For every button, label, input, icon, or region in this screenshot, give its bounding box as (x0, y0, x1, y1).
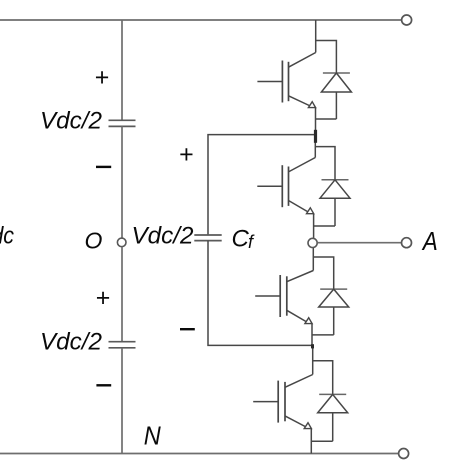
svg-text:+: + (95, 284, 110, 312)
wire emitter of S1 (315, 108, 317, 136)
svg-text:f: f (248, 232, 255, 252)
wire collector-diode top bracket S4/D4 (313, 361, 333, 395)
node J2 (cell3/cell4 junction, flying cap -) (311, 344, 314, 348)
transistor S3 (IGBT) (255, 271, 313, 324)
wire collector of S4 (312, 345, 314, 374)
svg-text:A: A (421, 226, 438, 256)
svg-text:N: N (144, 421, 161, 451)
wire emitter-diode bottom bracket S3/D3 (312, 334, 334, 336)
wire bottom DC rail N (0, 453, 398, 455)
label - (upper bus capacitor polarity) (96, 166, 111, 168)
wire emitter-diode bottom bracket S4/D4 (311, 440, 332, 442)
wire collector of S2 (314, 135, 316, 158)
svg-text:C: C (232, 225, 250, 252)
wire left DC bus (top segment) (121, 20, 123, 120)
wire phase output to terminal A (317, 242, 401, 244)
capacitor C2 Vdc/2 (lower bus capacitor) (109, 342, 136, 348)
diode D2 (antiparallel) (320, 180, 350, 226)
wire collector-diode top bracket S1/D1 (316, 41, 337, 74)
svg-text:Vdc/2: Vdc/2 (40, 329, 102, 356)
terminal A (middle right) (402, 238, 412, 248)
capacitor Cf (flying capacitor) (194, 235, 221, 241)
svg-text:+: + (179, 140, 194, 168)
node J1 (cell1/cell2 junction, flying cap +) (314, 130, 317, 143)
svg-text:Vdc: Vdc (0, 223, 14, 250)
diode D3 (antiparallel) (319, 289, 349, 335)
wire collector-diode top bracket S2/D2 (315, 147, 335, 180)
svg-text:Vdc/2: Vdc/2 (132, 223, 194, 250)
wire top DC rail P (0, 19, 402, 21)
svg-text:O: O (85, 227, 103, 253)
wire emitter of S4 (310, 429, 312, 454)
node phase output circle (308, 238, 317, 247)
node O (midpoint circle) (117, 238, 126, 247)
wire collector of S1 (315, 20, 317, 53)
svg-text:+: + (94, 64, 109, 92)
label - (lower bus capacitor polarity) (96, 384, 111, 386)
wire collector-diode top bracket S3/D3 (313, 257, 333, 289)
wire emitter-diode bottom bracket S2/D2 (314, 225, 335, 227)
transistor S2 (IGBT) (257, 158, 315, 214)
wire emitter-diode bottom bracket S1/D1 (316, 118, 337, 120)
transistor S4 (IGBT) (253, 375, 313, 429)
wire flying-cap top connection (208, 135, 315, 235)
svg-text:Vdc/2: Vdc/2 (40, 108, 102, 135)
diode D1 (antiparallel) (321, 73, 351, 119)
wire flying-cap bottom connection (208, 241, 312, 346)
wire left DC bus (lower middle segment) (121, 247, 123, 342)
terminal P (top right) (402, 15, 412, 25)
transistor S1 (IGBT) (257, 53, 315, 108)
capacitor C1 Vdc/2 (upper bus capacitor) (109, 120, 136, 126)
terminal N (bottom right) (399, 449, 409, 459)
wire emitter of S2 (313, 214, 315, 239)
wire left DC bus (bottom segment) (121, 348, 123, 454)
diode D4 (antiparallel) (318, 394, 348, 441)
label - (flying capacitor polarity) (180, 328, 195, 330)
wire collector of S3 (312, 247, 314, 270)
wire left DC bus (middle segment) (121, 126, 123, 238)
wire emitter of S3 (311, 324, 313, 346)
